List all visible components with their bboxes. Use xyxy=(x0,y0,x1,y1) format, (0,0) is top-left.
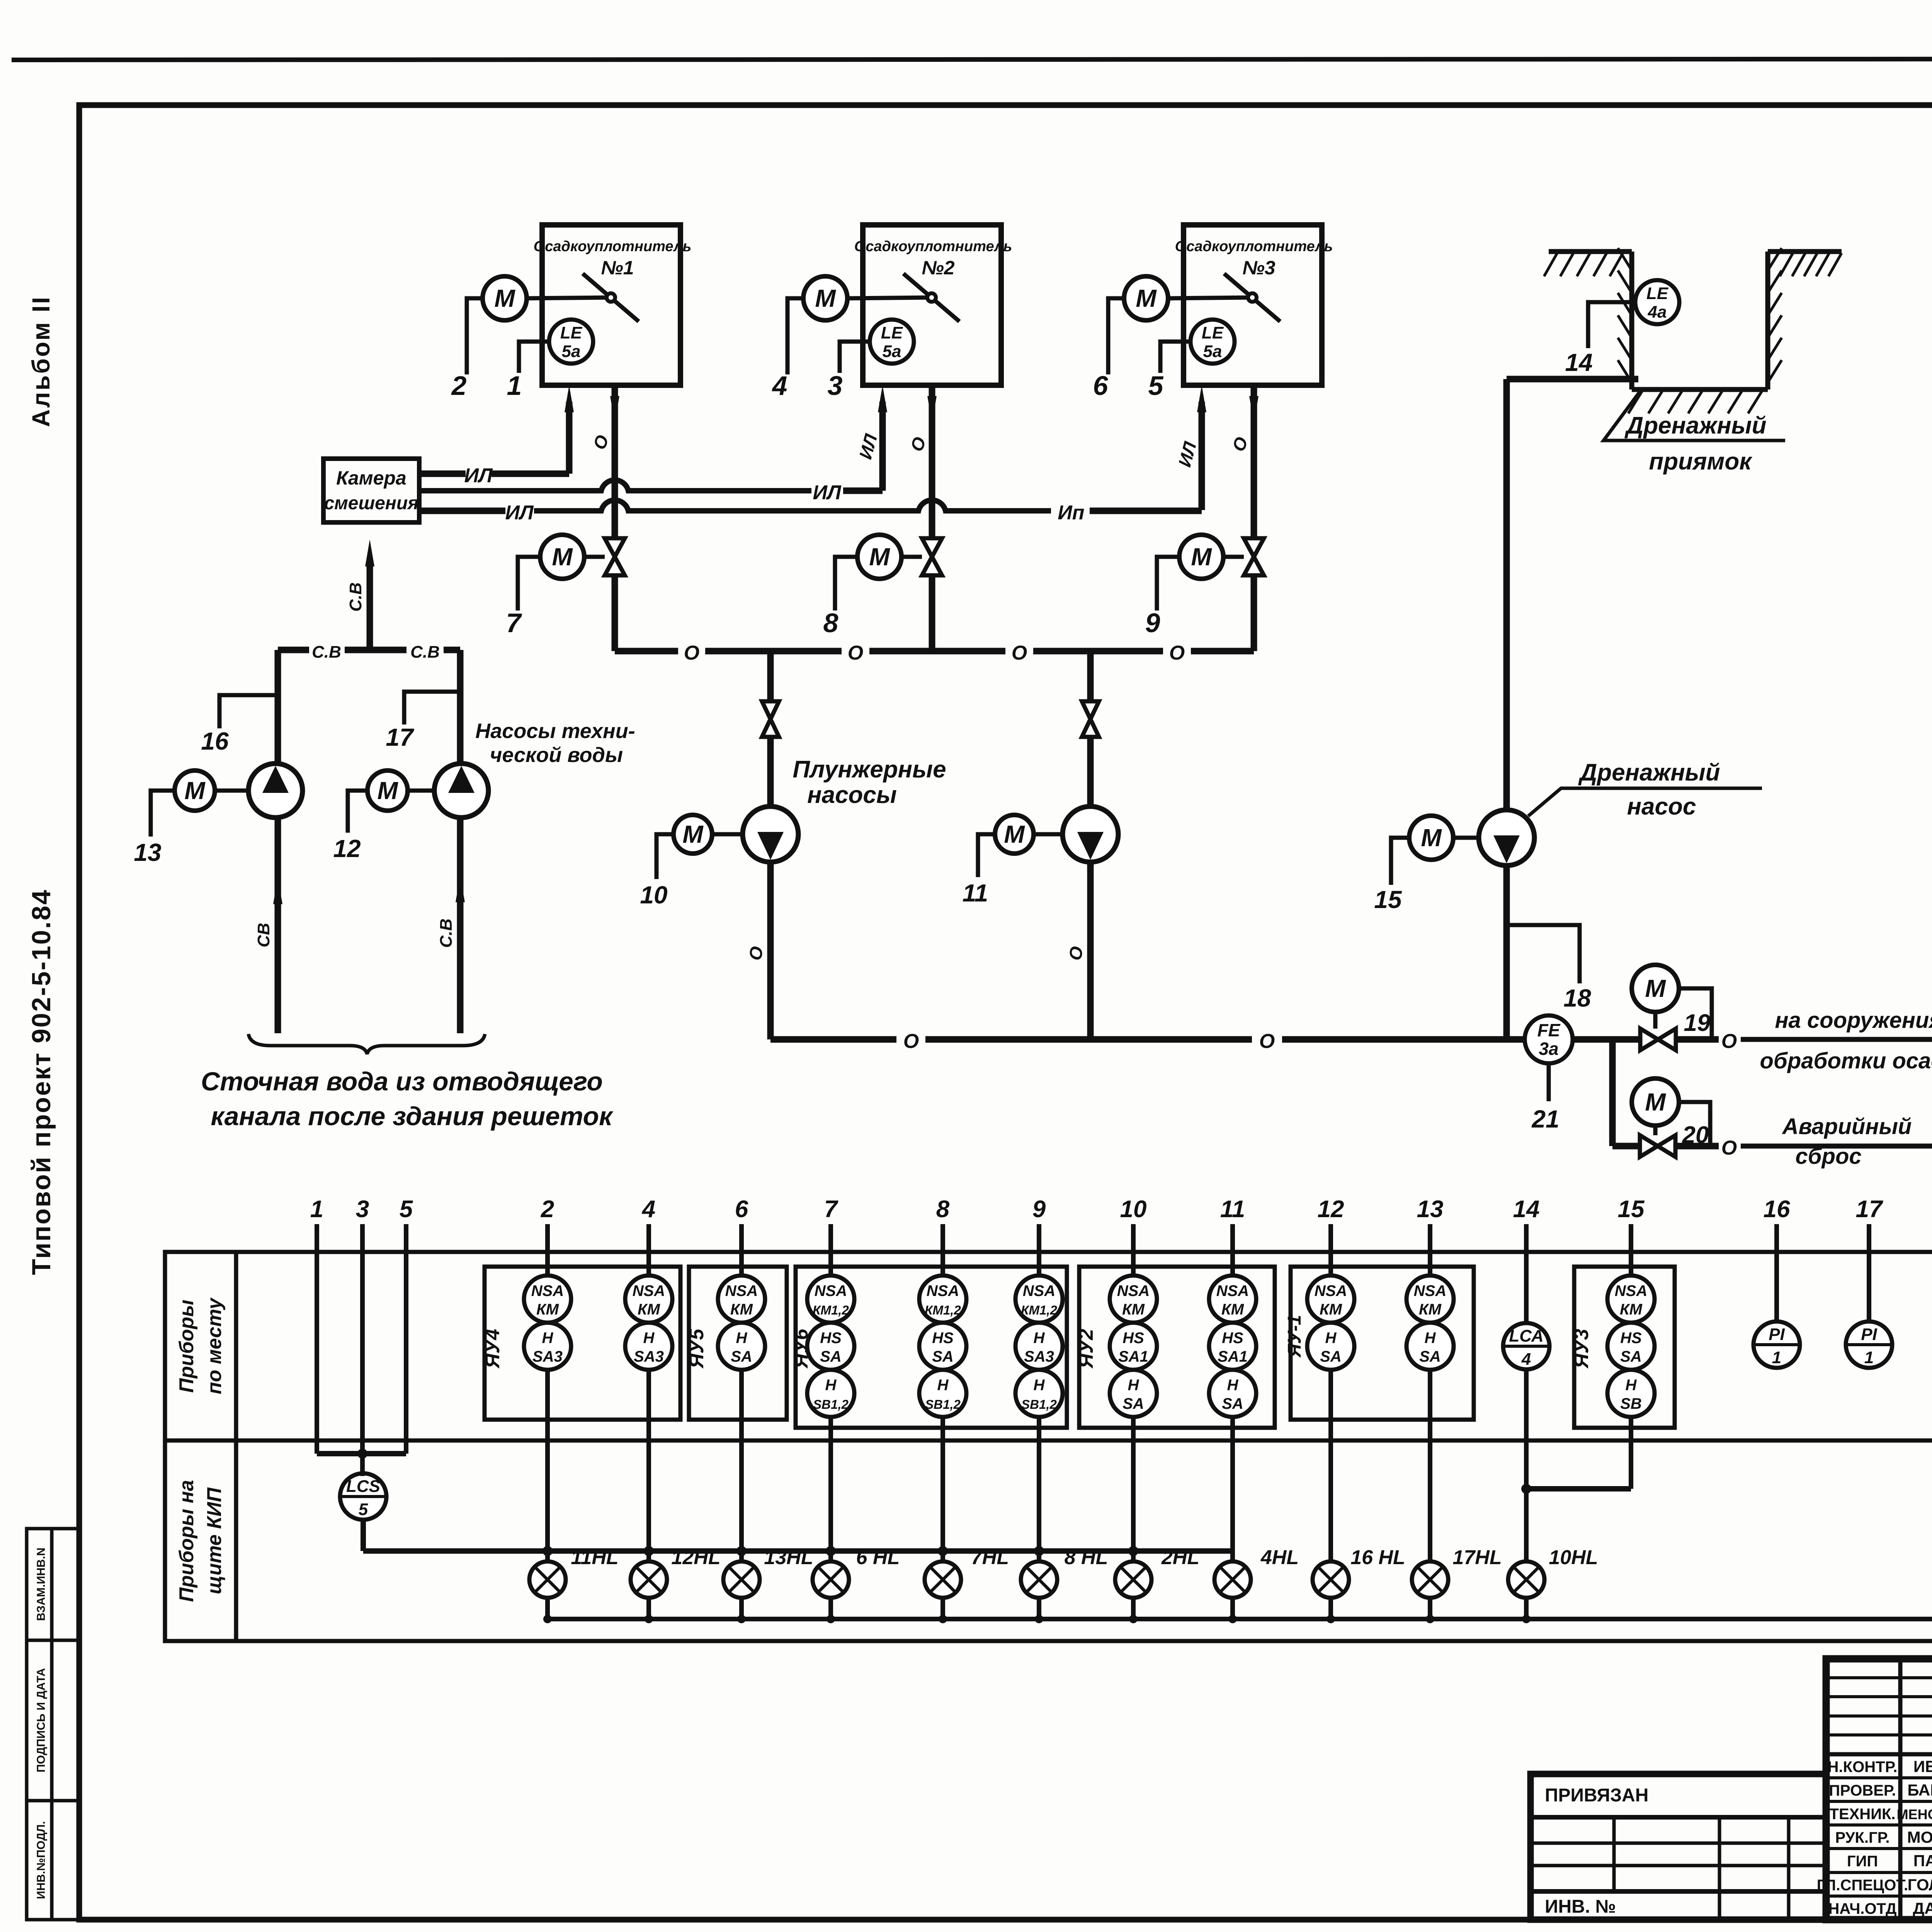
svg-text:LE: LE xyxy=(1202,323,1224,342)
svg-text:5а: 5а xyxy=(1203,342,1222,361)
instrument NSA КМ (column 2) xyxy=(524,1276,571,1323)
instrument НS SА (column 7) xyxy=(807,1323,854,1370)
svg-text:М: М xyxy=(552,543,573,571)
svg-text:Дренажный: Дренажный xyxy=(1624,412,1767,439)
svg-text:С.В: С.В xyxy=(312,643,341,662)
cell box ЯУ3 xyxy=(1574,1267,1675,1428)
svg-text:ПОДПИСЬ И ДАТА: ПОДПИСЬ И ДАТА xyxy=(35,1668,48,1772)
motorized valve on tank outlet (conn 7) xyxy=(605,538,625,575)
svg-text:О: О xyxy=(1721,1137,1737,1159)
valve on plunger pump 1 suction xyxy=(762,701,779,737)
svg-text:Н: Н xyxy=(1227,1377,1239,1394)
instrument NSA КМ (column 11) xyxy=(1209,1276,1256,1323)
svg-text:LE: LE xyxy=(560,323,583,342)
svg-text:1: 1 xyxy=(1864,1348,1874,1367)
motor M of valve 8 xyxy=(857,535,901,579)
svg-text:О: О xyxy=(1259,1030,1275,1053)
signal lamp 10НL xyxy=(1508,1561,1544,1598)
svg-text:LСА: LСА xyxy=(1509,1327,1543,1345)
svg-text:Н.КОНТР.: Н.КОНТР. xyxy=(1828,1759,1898,1776)
flow element FE 3a (conn 21) xyxy=(1525,1015,1573,1063)
sheet outer top border line xyxy=(12,59,1932,60)
svg-text:Н: Н xyxy=(1034,1377,1045,1394)
svg-text:Типовой проект 902-5-10.84: Типовой проект 902-5-10.84 xyxy=(27,889,56,1275)
emergency discharge pipe О Аварийный сброс xyxy=(1675,1143,1719,1150)
svg-text:11НL: 11НL xyxy=(571,1546,618,1569)
svg-text:М: М xyxy=(1645,975,1666,1002)
svg-text:ИЛ: ИЛ xyxy=(505,502,534,524)
instrument NSA КМ1,2 (column 7) xyxy=(807,1276,854,1323)
svg-text:NSA: NSA xyxy=(1315,1282,1347,1299)
instrument НS SА1 (column 10) xyxy=(1110,1323,1157,1370)
svg-text:№3: №3 xyxy=(1242,257,1275,279)
svg-text:НS: НS xyxy=(820,1330,842,1347)
signature table of title block xyxy=(1826,1676,1932,1679)
svg-text:Приборы на: Приборы на xyxy=(175,1480,198,1602)
svg-text:SА: SА xyxy=(731,1348,752,1365)
level sensor LE 5a of tank №2 (conn 3) xyxy=(870,320,914,364)
instrument NSA КМ1,2 (column 8) xyxy=(919,1276,966,1323)
svg-text:ИНВ.№ПОДЛ.: ИНВ.№ПОДЛ. xyxy=(35,1821,48,1899)
instrument НS SА (column 8) xyxy=(919,1323,966,1370)
suction drop pipe to plunger pump 1 xyxy=(767,651,774,701)
svg-text:ГОЛЬЦМАН: ГОЛЬЦМАН xyxy=(1908,1876,1932,1894)
svg-text:5: 5 xyxy=(400,1196,413,1223)
pipe from FE to discharge valves xyxy=(1573,1036,1641,1043)
instrument Н SВ1,2 (column 7) xyxy=(807,1370,854,1417)
svg-text:Дренажный: Дренажный xyxy=(1578,759,1720,786)
sludge trunk pipe ИЛ to tank №2 (with hump over tank1 outlet) xyxy=(419,480,811,491)
svg-text:КМ1,2: КМ1,2 xyxy=(813,1303,849,1317)
svg-text:8: 8 xyxy=(936,1196,950,1223)
instrument NSA КМ (column 13) xyxy=(1406,1276,1454,1323)
sludge inlet pipe ИЛ into tank №1 with up arrow xyxy=(566,402,573,474)
svg-text:КМ: КМ xyxy=(1419,1301,1442,1318)
pipe from valve 7 down to collector xyxy=(612,575,618,651)
instrument NSA КМ (column 10) xyxy=(1110,1276,1157,1323)
pipe О to sludge treatment facilities with arrow xyxy=(1675,1036,1719,1043)
svg-text:РI: РI xyxy=(1861,1325,1877,1344)
attached-project stamp table left of title block xyxy=(1531,1774,1826,1920)
instrument Н SА3 (column 4) xyxy=(625,1323,672,1370)
motorized valve conn 20 (emergency discharge) xyxy=(1640,1135,1675,1157)
svg-text:НАЧ.ОТД: НАЧ.ОТД xyxy=(1828,1900,1897,1917)
curly brace under suction pipes xyxy=(248,1034,485,1054)
svg-text:2: 2 xyxy=(451,371,467,401)
svg-text:№2: №2 xyxy=(922,257,954,279)
scraper mechanism in tank №2 xyxy=(903,274,959,321)
motor M of valve 19 xyxy=(1632,965,1679,1012)
label Дренажный приямок with leader xyxy=(1604,391,1785,440)
svg-text:ЯУ2: ЯУ2 xyxy=(1075,1329,1097,1369)
svg-text:Осадкоуплотнитель: Осадкоуплотнитель xyxy=(1175,238,1333,255)
svg-text:Камера: Камера xyxy=(336,467,406,489)
svg-text:Н: Н xyxy=(937,1377,949,1394)
hatching of pit ground xyxy=(1544,253,1557,276)
instrument Н SА (column 6) xyxy=(718,1323,765,1370)
pressure gauge PI 1 (column 17) xyxy=(1846,1321,1892,1368)
svg-text:сброс: сброс xyxy=(1795,1144,1861,1169)
svg-text:13: 13 xyxy=(1417,1196,1444,1223)
waste water header С.В to technical water pumps xyxy=(278,647,309,653)
svg-text:13: 13 xyxy=(134,838,161,866)
svg-text:FE: FE xyxy=(1537,1020,1561,1040)
instrument tap line conn 16 xyxy=(219,695,278,728)
svg-text:О: О xyxy=(903,1030,919,1053)
svg-text:SВ1,2: SВ1,2 xyxy=(813,1397,849,1412)
svg-text:ГЛ.СПЕЦОТ.: ГЛ.СПЕЦОТ. xyxy=(1817,1877,1908,1894)
svg-text:Н: Н xyxy=(542,1330,554,1347)
svg-text:5а: 5а xyxy=(562,342,581,361)
svg-text:7: 7 xyxy=(824,1196,838,1223)
svg-text:SА: SА xyxy=(1419,1348,1441,1365)
svg-text:Н: Н xyxy=(736,1330,748,1347)
instrument table frame xyxy=(165,1252,1932,1641)
svg-text:1: 1 xyxy=(1772,1348,1781,1367)
svg-text:М: М xyxy=(1191,543,1212,571)
technical water pump 2 xyxy=(434,764,488,818)
branch to emergency discharge xyxy=(1609,1039,1616,1146)
label Дренажный насос with leader xyxy=(1528,788,1762,816)
motor M of plunger pump 2 (conn 11) xyxy=(995,815,1034,854)
svg-text:3а: 3а xyxy=(1539,1039,1558,1059)
motor M of drain pump (conn 15) xyxy=(1409,816,1453,860)
svg-text:6: 6 xyxy=(735,1196,748,1223)
signal lamp 2НL xyxy=(1115,1561,1151,1598)
instrument Н SВ1,2 (column 9) xyxy=(1015,1370,1063,1417)
cell box ЯУ-1 xyxy=(1291,1267,1474,1420)
cell box ЯУ5 xyxy=(689,1267,787,1420)
signal lamp 8НL xyxy=(1021,1561,1057,1598)
svg-text:РУК.ГР.: РУК.ГР. xyxy=(1835,1829,1889,1846)
svg-text:обработки осадка: обработки осадка xyxy=(1760,1048,1932,1073)
pipe from valve 9 down to collector xyxy=(1251,575,1257,651)
instrument Н SА3 (column 2) xyxy=(524,1323,571,1370)
compacted sludge collector pipe О xyxy=(615,648,678,655)
level sensor LE 4a in drainage pit (conn 14) xyxy=(1635,280,1679,324)
pipe from valve 8 down to collector xyxy=(929,575,935,651)
plunger pump 2 xyxy=(1063,806,1118,862)
signal lamp 16НL xyxy=(1313,1561,1349,1598)
svg-text:3: 3 xyxy=(828,371,843,401)
svg-text:11: 11 xyxy=(1220,1196,1245,1223)
svg-text:5: 5 xyxy=(359,1500,368,1519)
svg-text:12: 12 xyxy=(333,835,361,862)
svg-text:16: 16 xyxy=(201,727,229,755)
svg-text:М: М xyxy=(1421,824,1442,852)
suction drop pipe to plunger pump 2 xyxy=(1087,651,1094,701)
svg-text:17НL: 17НL xyxy=(1452,1546,1502,1569)
svg-text:ческой воды: ческой воды xyxy=(490,743,623,767)
cell box ЯУ4 xyxy=(485,1267,680,1420)
svg-text:SВ1,2: SВ1,2 xyxy=(925,1397,961,1412)
suction pipe С.В of tech pump 2 with up arrow xyxy=(457,818,464,1033)
drain pump discharge pipe xyxy=(1503,866,1510,1039)
svg-text:SА3: SА3 xyxy=(1024,1348,1054,1365)
motor M of valve 9 xyxy=(1179,535,1223,579)
svg-text:4НL: 4НL xyxy=(1260,1546,1299,1569)
motor M of tech water pump 2 (conn 12) xyxy=(367,770,408,811)
discharge pipe О of plunger pump 1 xyxy=(767,862,774,1039)
motor M of valve 20 xyxy=(1632,1078,1679,1126)
signal bus from LCS 5 to lamps xyxy=(361,1519,366,1551)
svg-text:1: 1 xyxy=(507,371,522,401)
sludge inlet pipe ИЛ into tank №2 with up arrow xyxy=(879,402,886,491)
compacted sludge outlet О from tank №1 with down arrow xyxy=(612,385,618,539)
svg-text:КМ: КМ xyxy=(730,1301,753,1318)
svg-text:НS: НS xyxy=(1620,1330,1642,1347)
motorized valve conn 19 (to sludge treatment) xyxy=(1640,1029,1676,1050)
svg-text:ПРИВЯЗАН: ПРИВЯЗАН xyxy=(1545,1785,1648,1806)
svg-text:№1: №1 xyxy=(601,257,634,279)
title block outer frame xyxy=(1826,1659,1932,1920)
svg-text:М: М xyxy=(682,820,704,848)
svg-text:9: 9 xyxy=(1032,1196,1046,1223)
lamp bottom bus to sound alarm circuit xyxy=(545,1598,550,1619)
svg-text:НS: НS xyxy=(1222,1330,1243,1347)
svg-text:Осадкоуплотнитель: Осадкоуплотнитель xyxy=(854,238,1012,255)
svg-text:4: 4 xyxy=(641,1196,655,1223)
motorized valve on tank outlet (conn 8) xyxy=(922,538,942,575)
svg-text:ИЛ: ИЛ xyxy=(464,464,493,487)
svg-text:М: М xyxy=(1136,284,1157,312)
svg-text:по месту: по месту xyxy=(203,1297,226,1395)
svg-text:смешения: смешения xyxy=(324,493,419,514)
instrument tap conn 18 xyxy=(1507,925,1580,983)
svg-text:10: 10 xyxy=(1120,1196,1147,1223)
svg-text:РI: РI xyxy=(1769,1325,1785,1344)
svg-text:ПРОВЕР.: ПРОВЕР. xyxy=(1829,1782,1896,1799)
svg-text:SА: SА xyxy=(820,1348,842,1365)
svg-text:КМ: КМ xyxy=(536,1301,560,1318)
thickener tank Осадкоуплотнитель №2 xyxy=(863,225,1001,385)
svg-text:1: 1 xyxy=(310,1196,323,1223)
svg-text:14: 14 xyxy=(1565,349,1592,376)
signal lamp 7НL xyxy=(925,1561,961,1598)
svg-text:10НL: 10НL xyxy=(1549,1546,1598,1569)
svg-text:SА3: SА3 xyxy=(532,1348,563,1365)
mixing chamber box Камера смешения xyxy=(323,459,419,522)
signal lamp 6НL xyxy=(813,1561,849,1598)
svg-text:NSA: NSA xyxy=(531,1282,564,1299)
svg-text:О: О xyxy=(684,642,699,664)
drop wires from instruments to signal lamps xyxy=(545,1370,550,1561)
svg-text:16 НL: 16 НL xyxy=(1350,1546,1405,1569)
instrument NSA КМ (column 4) xyxy=(625,1276,672,1323)
svg-text:Аварийный: Аварийный xyxy=(1782,1114,1912,1139)
svg-text:17: 17 xyxy=(386,723,415,751)
svg-text:15: 15 xyxy=(1374,886,1402,913)
svg-text:5а: 5а xyxy=(883,342,901,361)
svg-text:СВ: СВ xyxy=(254,923,273,947)
motorized valve on tank outlet (conn 9) xyxy=(1244,538,1264,575)
svg-text:8: 8 xyxy=(823,608,838,638)
svg-text:NSA: NSA xyxy=(1216,1282,1249,1299)
svg-text:Н: Н xyxy=(1128,1377,1139,1394)
svg-text:Приборы: Приборы xyxy=(175,1299,198,1393)
motor M of scraper drive, tank №2 (conn 4) xyxy=(803,276,847,320)
svg-text:С.В: С.В xyxy=(346,582,365,612)
svg-text:МЕНОВЩИКОВА: МЕНОВЩИКОВА xyxy=(1897,1806,1932,1822)
svg-text:КМ: КМ xyxy=(1620,1301,1643,1318)
instrument NSA КМ (column 15) xyxy=(1607,1276,1655,1323)
signal lamp 12НL xyxy=(631,1561,667,1598)
svg-text:ИЛ: ИЛ xyxy=(813,481,841,504)
technical water pump 1 (Насосы технической воды) xyxy=(248,764,303,818)
instrument Н SВ1,2 (column 8) xyxy=(919,1370,966,1417)
svg-text:SВ1,2: SВ1,2 xyxy=(1021,1397,1057,1412)
svg-text:насосы: насосы xyxy=(807,782,897,808)
svg-text:ТЕХНИК.: ТЕХНИК. xyxy=(1830,1806,1896,1823)
svg-text:ЯУ4: ЯУ4 xyxy=(481,1329,504,1369)
svg-text:Н: Н xyxy=(825,1377,837,1394)
svg-text:Насосы техни-: Насосы техни- xyxy=(475,719,635,743)
svg-text:NSA: NSA xyxy=(927,1282,959,1299)
svg-text:ЯУ3: ЯУ3 xyxy=(1570,1329,1593,1369)
pipe ИЛ from mixing chamber to tank №1, label ИЛ xyxy=(419,471,466,477)
svg-text:13НL: 13НL xyxy=(764,1546,813,1569)
svg-text:3: 3 xyxy=(356,1196,369,1223)
motor M of valve 7 xyxy=(540,535,584,579)
svg-text:SВ: SВ xyxy=(1620,1395,1642,1412)
svg-text:NSA: NSA xyxy=(815,1282,847,1299)
svg-text:NSA: NSA xyxy=(633,1282,665,1299)
svg-text:щите КИП: щите КИП xyxy=(203,1487,226,1594)
svg-text:6 НL: 6 НL xyxy=(856,1546,900,1569)
svg-text:М: М xyxy=(1004,820,1025,848)
svg-text:NSA: NSA xyxy=(1615,1282,1647,1299)
svg-text:7НL: 7НL xyxy=(971,1546,1009,1569)
instrument NSA КМ (column 6) xyxy=(718,1276,765,1323)
svg-text:NSA: NSA xyxy=(1023,1282,1055,1299)
wire LCA4/ЯУ3 to lamp 10HL xyxy=(1524,1370,1529,1561)
signal lamp 17НL xyxy=(1412,1561,1448,1598)
svg-text:SА: SА xyxy=(1620,1348,1642,1365)
suction pipe С.В of tech pump 1 with up arrow xyxy=(275,818,281,1033)
instrument НS SА (column 15) xyxy=(1607,1323,1655,1370)
svg-text:19: 19 xyxy=(1684,1010,1711,1036)
svg-text:М: М xyxy=(494,284,515,312)
svg-text:ДАНИЛОВ: ДАНИЛОВ xyxy=(1913,1899,1932,1917)
margin stamp table (Взам.инв.N / Подпись и дата / Инв.Nподл.) xyxy=(27,1529,79,1920)
discharge pipe О of plunger pump 2 xyxy=(1087,862,1094,1039)
plunger pump 1 xyxy=(743,806,798,862)
motor M of scraper drive, tank №1 (conn 2) xyxy=(483,276,527,320)
svg-text:Ип: Ип xyxy=(1058,502,1084,524)
svg-text:Н: Н xyxy=(1325,1330,1337,1347)
svg-text:7: 7 xyxy=(506,608,522,638)
svg-text:Н: Н xyxy=(643,1330,655,1347)
svg-text:SА: SА xyxy=(1222,1395,1243,1412)
svg-text:КМ1,2: КМ1,2 xyxy=(925,1303,961,1317)
svg-text:SА1: SА1 xyxy=(1118,1348,1148,1365)
svg-text:М: М xyxy=(1645,1088,1666,1116)
thickener tank Осадкоуплотнитель №1 xyxy=(542,225,680,385)
scraper mechanism in tank №3 xyxy=(1224,274,1280,321)
level sensor LE 5a of tank №3 (conn 5) xyxy=(1190,320,1235,364)
instrument Н SА (column 13) xyxy=(1406,1323,1454,1370)
instrument Н SА (column 11) xyxy=(1209,1370,1256,1417)
svg-text:С.В: С.В xyxy=(410,643,440,662)
svg-text:О: О xyxy=(1169,642,1185,664)
discharge riser of tech water pump 2 xyxy=(457,650,464,764)
svg-text:Альбом II: Альбом II xyxy=(27,296,55,427)
instrument Н SА3 (column 9) xyxy=(1015,1323,1063,1370)
svg-text:ИНВ. №: ИНВ. № xyxy=(1545,1896,1616,1917)
svg-text:М: М xyxy=(815,284,836,312)
svg-text:МОСЕЕНКО: МОСЕЕНКО xyxy=(1907,1828,1932,1846)
svg-text:LE: LE xyxy=(1646,284,1669,303)
svg-text:М: М xyxy=(869,543,890,571)
scraper mechanism in tank №1 xyxy=(583,274,639,321)
svg-text:ИВАНОВА: ИВАНОВА xyxy=(1913,1757,1932,1776)
svg-text:14: 14 xyxy=(1513,1196,1540,1223)
svg-text:8 НL: 8 НL xyxy=(1065,1546,1108,1569)
sludge inlet pipe ИЛ into tank №3 with up arrow xyxy=(1199,402,1205,510)
svg-text:LСS: LСS xyxy=(346,1477,380,1496)
svg-text:Н: Н xyxy=(1034,1330,1045,1347)
svg-text:5: 5 xyxy=(1148,371,1164,401)
instrument LCA 4 (column 14) xyxy=(1503,1323,1549,1369)
svg-text:ЯУ5: ЯУ5 xyxy=(685,1328,708,1369)
svg-text:SА: SА xyxy=(932,1348,954,1365)
motor M of tech water pump 1 (conn 13) xyxy=(175,770,215,811)
svg-text:Н: Н xyxy=(1425,1330,1436,1347)
svg-text:Плунжерные: Плунжерные xyxy=(793,756,946,783)
svg-text:SА1: SА1 xyxy=(1218,1348,1248,1365)
compacted sludge outlet О from tank №3 with down arrow xyxy=(1251,385,1257,539)
svg-text:12: 12 xyxy=(1318,1196,1344,1223)
motor M of scraper drive, tank №3 (conn 6) xyxy=(1124,276,1168,320)
svg-text:НS: НS xyxy=(932,1330,954,1347)
pressure gauge PI 1 (column 16) xyxy=(1753,1321,1800,1368)
svg-text:16: 16 xyxy=(1764,1196,1790,1223)
svg-text:9: 9 xyxy=(1145,608,1160,638)
signal lamp 11НL xyxy=(529,1561,566,1598)
svg-text:2НL: 2НL xyxy=(1161,1546,1199,1569)
level sensor LE 5a of tank №1 (conn 1) xyxy=(549,320,593,364)
instrument NSA КМ1,2 (column 9) xyxy=(1015,1276,1063,1323)
svg-text:насос: насос xyxy=(1627,793,1696,820)
svg-text:SА3: SА3 xyxy=(634,1348,664,1365)
svg-text:ГИП: ГИП xyxy=(1847,1853,1878,1870)
drain pump Дренажный насос xyxy=(1479,810,1534,866)
svg-text:4: 4 xyxy=(1521,1350,1531,1369)
thickener tank Осадкоуплотнитель №3 xyxy=(1184,225,1322,385)
svg-text:на сооружения: на сооружения xyxy=(1775,1008,1932,1033)
svg-text:КМ: КМ xyxy=(638,1301,661,1318)
svg-text:18: 18 xyxy=(1563,984,1591,1012)
svg-text:2: 2 xyxy=(541,1196,554,1223)
svg-text:NSA: NSA xyxy=(1117,1282,1150,1299)
tie bus of connections 1,3,5 to LCS xyxy=(317,1451,406,1456)
svg-text:ВЗАМ.ИНВ.N: ВЗАМ.ИНВ.N xyxy=(35,1548,48,1621)
svg-text:12НL: 12НL xyxy=(671,1546,720,1569)
compacted sludge outlet О from tank №2 with down arrow xyxy=(929,385,935,539)
svg-text:КМ: КМ xyxy=(1122,1301,1145,1318)
svg-text:SА: SА xyxy=(1122,1395,1144,1412)
svg-text:Сточная вода из отводящего: Сточная вода из отводящего xyxy=(201,1067,603,1096)
svg-text:КМ1,2: КМ1,2 xyxy=(1021,1303,1057,1317)
svg-text:4: 4 xyxy=(772,371,787,401)
sludge trunk pipe ИЛ to tank №3 (with humps, label Ип) xyxy=(419,508,505,514)
svg-text:4а: 4а xyxy=(1648,303,1667,321)
svg-text:ПАВЛОВА: ПАВЛОВА xyxy=(1913,1852,1932,1870)
svg-text:О: О xyxy=(848,642,863,664)
cell box ЯУ6 xyxy=(796,1267,1067,1428)
instrument Н SА (column 12) xyxy=(1307,1323,1354,1370)
svg-text:NSA: NSA xyxy=(1414,1282,1446,1299)
